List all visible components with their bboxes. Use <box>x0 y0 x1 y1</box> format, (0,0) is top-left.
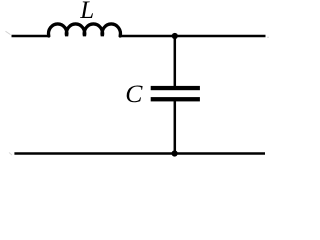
inductor L coil of 4 overlapping arcs <box>49 24 121 36</box>
svg-text:C: C <box>125 79 143 108</box>
capacitor C top plate <box>151 86 200 90</box>
wire bottom <box>14 152 265 155</box>
wire capacitor upper lead <box>174 36 177 87</box>
crop artifact bottom-left faint mark <box>9 153 12 156</box>
node junction dot top <box>172 33 178 39</box>
crop artifact top-right faint speck <box>267 37 268 38</box>
wire top-right segment <box>119 35 266 38</box>
node junction dot bottom <box>172 150 178 156</box>
svg-text:L: L <box>79 0 94 24</box>
wire capacitor lower lead <box>174 101 177 154</box>
crop artifact top-left faint diagonal <box>6 31 11 34</box>
wire top-left segment <box>12 35 49 38</box>
capacitor C bottom plate <box>151 97 200 101</box>
